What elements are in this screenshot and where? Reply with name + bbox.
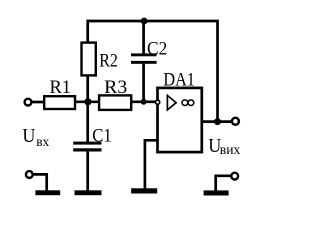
ground bar 1 (bottom-left) xyxy=(35,190,60,195)
wire: R2 bottom lead to node A xyxy=(86,75,89,102)
wire: R1 to R3 through node A xyxy=(75,100,101,103)
ground bar 2 (C1) xyxy=(75,190,102,195)
op-amp inverting input circle xyxy=(156,100,160,104)
bottom-left terminal circle xyxy=(26,171,33,178)
wire: op-amp non-inverting input to ground xyxy=(145,140,158,188)
svg-text:R3: R3 xyxy=(104,77,127,98)
wire: R3 to op-amp inverting input xyxy=(131,100,156,103)
op-amp DA1 box xyxy=(158,88,202,152)
node A: R1/R2/R3/C1 junction xyxy=(84,98,91,105)
op-amp infinity symbol xyxy=(182,100,188,106)
svg-text:C1: C1 xyxy=(92,126,112,147)
wire: bottom-right common terminal to ground xyxy=(216,176,232,191)
ground bar 3 (op-amp non-inverting input) xyxy=(131,188,157,193)
capacitor C2 xyxy=(131,53,157,56)
svg-text:C2: C2 xyxy=(147,38,167,59)
wire: C2 top lead xyxy=(142,21,145,53)
wire: node A down to C1 xyxy=(86,102,89,142)
bottom-right terminal circle xyxy=(231,173,238,180)
wire: feedback loop top (R2 top lead, top rail, right vertical to output node) xyxy=(88,21,218,122)
resistor R1 xyxy=(44,96,75,109)
node: output junction xyxy=(214,118,221,125)
wire: op-amp output to output node and terminal xyxy=(202,120,233,123)
wire: C1 bottom to ground xyxy=(86,151,89,190)
wire: bottom-left common terminal to ground xyxy=(33,174,47,190)
ground bar 4 (bottom-right) xyxy=(204,190,229,195)
resistor R2 xyxy=(82,43,96,76)
svg-text:R1: R1 xyxy=(50,77,72,98)
input terminal circle xyxy=(25,99,32,106)
capacitor C1 xyxy=(73,142,101,145)
wire: input terminal to R1 xyxy=(32,101,46,104)
resistor R3 xyxy=(99,95,131,110)
wire: C2 bottom lead to inverting node xyxy=(142,64,145,102)
svg-text:U: U xyxy=(22,125,35,147)
svg-text:вх: вх xyxy=(36,135,49,150)
node B: R3/C2/op-amp junction xyxy=(141,99,147,105)
svg-text:вих: вих xyxy=(220,143,241,158)
svg-text:R2: R2 xyxy=(99,50,118,71)
op-amp triangle symbol xyxy=(167,95,176,110)
svg-text:DA1: DA1 xyxy=(163,70,195,91)
node: top rail to C2 junction xyxy=(141,18,148,25)
output terminal circle xyxy=(232,118,239,125)
